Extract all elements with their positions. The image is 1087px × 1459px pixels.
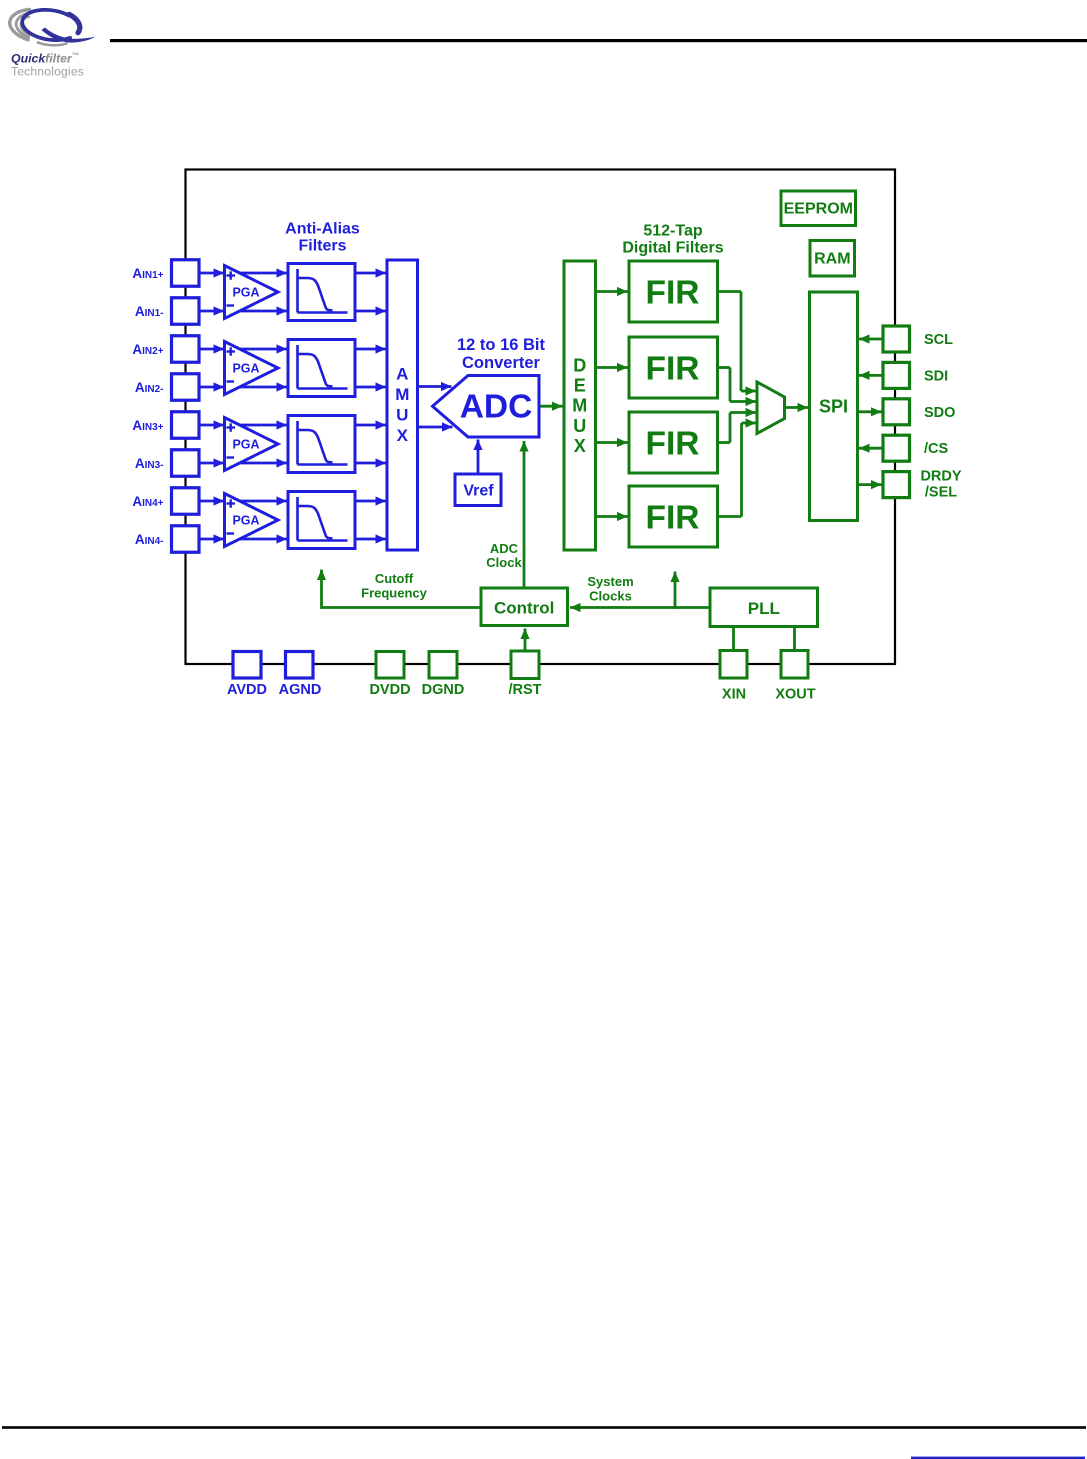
svg-text:SPI: SPI — [819, 397, 848, 417]
svg-text:FIR: FIR — [646, 426, 700, 463]
svg-text:AIN1-: AIN1- — [135, 304, 164, 319]
svg-text:D: D — [573, 355, 586, 375]
svg-text:System: System — [587, 574, 633, 589]
svg-text:/SEL: /SEL — [925, 485, 957, 501]
svg-text:Clock: Clock — [486, 555, 522, 570]
svg-text:/RST: /RST — [508, 682, 541, 698]
svg-text:PLL: PLL — [748, 599, 780, 618]
svg-text:AIN4+: AIN4+ — [132, 494, 163, 509]
svg-text:DRDY: DRDY — [920, 469, 961, 485]
svg-text:512-Tap: 512-Tap — [643, 223, 703, 240]
svg-text:FIR: FIR — [646, 351, 700, 388]
svg-text:DGND: DGND — [422, 682, 465, 698]
svg-text:M: M — [572, 396, 587, 416]
svg-text:X: X — [397, 426, 409, 445]
svg-text:FIR: FIR — [646, 500, 700, 537]
svg-text:AVDD: AVDD — [227, 682, 267, 698]
svg-text:12 to 16 Bit: 12 to 16 Bit — [457, 336, 546, 354]
svg-text:AIN1+: AIN1+ — [132, 266, 163, 281]
svg-text:SDI: SDI — [924, 368, 948, 384]
svg-text:EEPROM: EEPROM — [784, 201, 853, 218]
svg-text:Digital Filters: Digital Filters — [622, 240, 723, 257]
svg-text:U: U — [573, 416, 586, 436]
svg-text:AGND: AGND — [279, 682, 322, 698]
svg-text:X: X — [574, 436, 586, 456]
svg-text:M: M — [395, 385, 409, 404]
svg-text:Anti-Alias: Anti-Alias — [285, 221, 360, 238]
svg-text:ADC: ADC — [460, 389, 533, 426]
svg-text:FIR: FIR — [646, 275, 700, 312]
svg-text:PGA: PGA — [232, 438, 259, 452]
svg-text:PGA: PGA — [232, 286, 259, 300]
svg-text:Technologies: Technologies — [11, 65, 84, 79]
svg-text:Clocks: Clocks — [589, 589, 632, 604]
svg-text:XOUT: XOUT — [775, 687, 815, 703]
svg-text:Quickfilter™: Quickfilter™ — [11, 52, 79, 66]
svg-text:XIN: XIN — [722, 687, 746, 703]
svg-text:Control: Control — [494, 599, 554, 618]
svg-text:AIN2+: AIN2+ — [132, 342, 163, 357]
svg-text:/CS: /CS — [924, 441, 949, 457]
svg-text:Vref: Vref — [463, 483, 494, 500]
svg-text:Converter: Converter — [462, 354, 541, 372]
svg-text:DVDD: DVDD — [369, 682, 410, 698]
svg-text:SCL: SCL — [924, 332, 953, 348]
svg-text:RAM: RAM — [814, 251, 850, 268]
svg-text:Filters: Filters — [298, 238, 346, 255]
svg-text:PGA: PGA — [232, 514, 259, 528]
svg-text:SDO: SDO — [924, 405, 955, 421]
svg-text:ADC: ADC — [490, 541, 519, 556]
svg-text:PGA: PGA — [232, 362, 259, 376]
svg-text:AIN3+: AIN3+ — [132, 418, 163, 433]
svg-text:AIN4-: AIN4- — [135, 532, 164, 547]
svg-text:U: U — [396, 405, 408, 424]
svg-text:AIN2-: AIN2- — [135, 380, 164, 395]
svg-text:AIN3-: AIN3- — [135, 456, 164, 471]
svg-text:Frequency: Frequency — [361, 586, 428, 601]
svg-text:A: A — [396, 364, 408, 383]
svg-text:E: E — [574, 376, 586, 396]
svg-text:Cutoff: Cutoff — [375, 571, 414, 586]
